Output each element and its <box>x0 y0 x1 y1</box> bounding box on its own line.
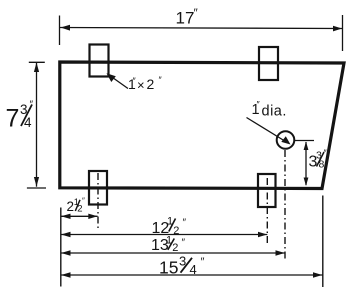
svg-text:17: 17 <box>176 9 195 28</box>
svg-text:″: ″ <box>30 100 34 111</box>
centerline bottom-right tab <box>266 178 268 246</box>
tab slot bottom-left <box>89 171 107 205</box>
tick 3 3/8 top from hole <box>294 140 314 142</box>
svg-text:15: 15 <box>159 258 178 278</box>
svg-text:″: ″ <box>82 197 85 206</box>
arrow 12.5 left <box>61 232 71 237</box>
svg-text:2: 2 <box>173 225 179 237</box>
arrow leader 1 dia <box>281 136 290 144</box>
svg-text:″: ″ <box>182 238 186 249</box>
arrow leader 1x2 <box>107 73 116 82</box>
arrow 7.75 up <box>34 63 39 73</box>
arrow 2.5 right <box>88 214 97 219</box>
plate outline <box>60 62 344 189</box>
tab slot top-left 1x2 <box>90 45 109 77</box>
hole 1 inch dia <box>277 131 295 149</box>
tick 7.75 top <box>29 61 45 63</box>
arrow 3.375 down <box>304 178 309 187</box>
leader 1x2 label <box>109 75 128 89</box>
svg-text:dia.: dia. <box>262 104 287 120</box>
arrow 13.5 right <box>276 250 285 255</box>
dimension 7 3/4 inch line <box>36 62 38 186</box>
svg-text:″: ″ <box>201 256 205 268</box>
arrow 15.75 right <box>313 272 322 277</box>
arrow 2.5 left <box>61 214 71 219</box>
dimension 3 3/8 line <box>305 142 307 185</box>
arrow 17 left <box>61 25 71 31</box>
arrow 3.375 up <box>304 142 309 151</box>
extension line 17 right <box>342 15 344 51</box>
arrow 12.5 right <box>258 232 267 237</box>
svg-text:8: 8 <box>319 159 325 171</box>
svg-text:×: × <box>137 78 145 93</box>
svg-text:2: 2 <box>147 76 155 92</box>
dimension 17 inch line <box>60 28 343 29</box>
arrow 15.75 left <box>61 272 71 277</box>
dimension 13 1/2 line <box>61 252 285 254</box>
extension line bottom left <box>60 208 62 287</box>
centerline hole <box>284 150 286 259</box>
dimension 2 1/2 line <box>61 215 98 217</box>
svg-text:4: 4 <box>190 262 197 277</box>
tab slot top-right <box>259 47 278 80</box>
arrow 13.5 left <box>61 250 71 255</box>
centerline bottom-left tab <box>97 173 99 230</box>
svg-text:″: ″ <box>183 218 187 229</box>
svg-text:2: 2 <box>172 242 178 254</box>
arrow 7.75 down <box>34 177 39 187</box>
dimension 12 1/2 line <box>61 234 267 236</box>
extension line bottom right <box>322 196 324 288</box>
leader 1 dia label <box>247 118 289 144</box>
extension line 17 left <box>59 16 61 46</box>
dimension 15 3/4 line <box>61 274 323 276</box>
tab slot bottom-right <box>258 174 276 207</box>
arrow 17 right <box>333 26 342 32</box>
tick 7.75 bottom <box>27 187 46 189</box>
svg-text:4: 4 <box>24 115 32 130</box>
svg-text:7: 7 <box>6 105 20 133</box>
